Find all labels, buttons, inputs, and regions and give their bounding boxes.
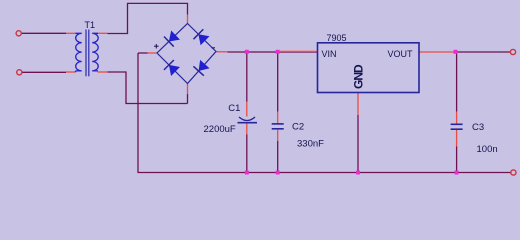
svg-text:VOUT: VOUT [388, 49, 414, 59]
svg-text:T1: T1 [85, 20, 96, 30]
svg-text:100n: 100n [477, 144, 498, 155]
svg-text:330nF: 330nF [297, 139, 324, 150]
svg-text:C1: C1 [228, 103, 240, 114]
svg-text:C3: C3 [472, 122, 484, 133]
svg-text:7905: 7905 [327, 33, 347, 43]
svg-text:GND: GND [351, 64, 365, 89]
svg-text:2200uF: 2200uF [204, 124, 236, 135]
svg-text:VIN: VIN [322, 49, 337, 59]
svg-text:C2: C2 [292, 122, 304, 133]
